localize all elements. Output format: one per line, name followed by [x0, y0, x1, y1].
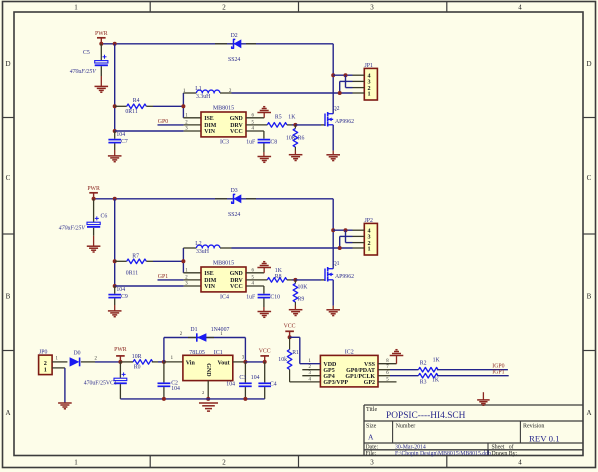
svg-text:B: B [6, 293, 11, 301]
svg-text:A: A [5, 409, 10, 417]
svg-text:3.3uH: 3.3uH [196, 94, 211, 100]
svg-text:470uF/25V: 470uF/25V [70, 68, 98, 75]
svg-text:AP9962: AP9962 [335, 274, 354, 280]
svg-text:A: A [586, 409, 591, 417]
svg-text:ISE: ISE [204, 116, 214, 122]
svg-text:10k: 10k [278, 357, 287, 363]
svg-text:GND: GND [230, 116, 243, 122]
svg-text:Q2: Q2 [333, 106, 340, 112]
svg-text:VCC: VCC [230, 284, 243, 290]
svg-text:VCC: VCC [230, 129, 243, 135]
svg-text:1uF: 1uF [246, 295, 256, 301]
svg-text:C9: C9 [121, 294, 128, 300]
svg-text:IGP1: IGP1 [492, 370, 504, 376]
svg-text:R4: R4 [133, 98, 140, 104]
svg-text:Size: Size [366, 424, 377, 430]
svg-text:D0: D0 [74, 351, 81, 357]
svg-text:R1: R1 [292, 350, 299, 356]
svg-text:C8: C8 [270, 140, 277, 146]
svg-text:DIM: DIM [204, 278, 217, 284]
svg-text:3: 3 [370, 4, 374, 12]
svg-text:VIN: VIN [204, 284, 216, 290]
svg-text:VCC: VCC [284, 323, 296, 329]
svg-text:10R: 10R [132, 354, 142, 360]
svg-text:REV 0.1: REV 0.1 [529, 434, 560, 444]
svg-text:104: 104 [116, 287, 125, 293]
svg-text:SS24: SS24 [228, 57, 240, 63]
svg-text:Date:: Date: [366, 444, 379, 450]
svg-text:33uH: 33uH [196, 249, 210, 255]
svg-text:4: 4 [518, 458, 522, 466]
svg-text:JP2: JP2 [365, 218, 373, 224]
svg-text:R3: R3 [420, 379, 427, 385]
svg-text:470uF/25VC1: 470uF/25VC1 [84, 381, 117, 387]
svg-text:DIM: DIM [204, 123, 217, 129]
svg-text:C3: C3 [239, 375, 246, 381]
svg-text:3: 3 [370, 458, 374, 466]
svg-text:Revision: Revision [523, 424, 544, 430]
svg-text:File:: File: [366, 451, 377, 457]
svg-text:SS24: SS24 [228, 212, 240, 218]
svg-text:1: 1 [74, 458, 78, 466]
svg-text:MB8015: MB8015 [213, 260, 234, 266]
svg-text:IGP0: IGP0 [492, 363, 504, 369]
svg-text:POPSIC----HI4.SCH: POPSIC----HI4.SCH [386, 411, 466, 421]
svg-text:2: 2 [202, 390, 204, 395]
svg-text:C7: C7 [121, 139, 128, 145]
svg-text:C: C [6, 174, 11, 182]
svg-text:104: 104 [251, 375, 260, 381]
svg-text:R8: R8 [275, 274, 282, 280]
svg-text:B: B [587, 293, 592, 301]
svg-text:30-Mar-2014: 30-Mar-2014 [395, 444, 426, 450]
svg-text:GND: GND [205, 363, 211, 377]
svg-text:104: 104 [226, 381, 235, 387]
svg-text:1: 1 [44, 366, 47, 373]
svg-text:1K: 1K [288, 114, 296, 120]
svg-text:104: 104 [116, 132, 125, 138]
svg-text:C6: C6 [101, 214, 108, 220]
svg-text:1K: 1K [433, 358, 441, 364]
svg-text:GP3/VPP: GP3/VPP [323, 380, 348, 386]
svg-text:L2: L2 [195, 241, 202, 247]
svg-text:Q1: Q1 [333, 261, 340, 267]
svg-text:IC3: IC3 [220, 140, 229, 146]
svg-text:GP2: GP2 [364, 380, 375, 386]
svg-text:D2: D2 [231, 33, 238, 39]
svg-text:2: 2 [222, 4, 226, 12]
svg-text:L1: L1 [195, 86, 202, 92]
svg-text:GP0: GP0 [158, 119, 168, 125]
svg-text:IC4: IC4 [220, 295, 229, 301]
svg-text:C5: C5 [83, 50, 90, 56]
svg-text:GP1/PCLK: GP1/PCLK [345, 374, 375, 380]
svg-text:JP0: JP0 [39, 349, 47, 355]
svg-text:Drawn By:: Drawn By: [492, 451, 518, 457]
svg-text:1uF: 1uF [246, 140, 256, 146]
svg-text:JP1: JP1 [365, 63, 373, 69]
svg-text:PWR: PWR [87, 186, 100, 192]
svg-text:PWR: PWR [114, 347, 127, 353]
svg-text:GP4: GP4 [323, 374, 334, 380]
svg-text:4: 4 [518, 4, 522, 12]
svg-text:R6: R6 [298, 135, 305, 141]
svg-text:Title: Title [366, 407, 377, 413]
svg-text:R0: R0 [134, 364, 141, 370]
svg-text:1K: 1K [432, 378, 440, 384]
svg-text:C: C [587, 174, 592, 182]
svg-text:D3: D3 [231, 188, 238, 194]
svg-text:104: 104 [171, 386, 180, 392]
svg-text:D: D [586, 60, 591, 68]
svg-text:GND: GND [230, 271, 243, 277]
svg-text:0R11: 0R11 [126, 270, 138, 276]
svg-text:Vout: Vout [217, 361, 229, 367]
svg-text:AP9962: AP9962 [335, 119, 354, 125]
svg-text:VCC: VCC [259, 349, 271, 355]
svg-text:IC2: IC2 [345, 350, 354, 356]
svg-text:R5: R5 [275, 114, 282, 120]
svg-text:470uF/25V: 470uF/25V [59, 224, 87, 231]
svg-text:GP1: GP1 [158, 274, 168, 280]
svg-text:DRV: DRV [230, 123, 243, 129]
svg-text:D1: D1 [190, 327, 197, 333]
svg-text:0R11: 0R11 [125, 109, 137, 115]
svg-text:DRV: DRV [230, 278, 243, 284]
svg-text:F:\Chopin Design\MB8015\MB8015: F:\Chopin Design\MB8015\MB8015.ddb [395, 451, 491, 457]
svg-text:A: A [368, 433, 374, 442]
svg-text:PWR: PWR [95, 31, 108, 37]
svg-text:78L05: 78L05 [189, 350, 205, 356]
svg-text:10K: 10K [298, 285, 309, 291]
svg-text:1: 1 [74, 4, 78, 12]
svg-text:D: D [5, 60, 10, 68]
svg-text:C10: C10 [270, 295, 280, 301]
svg-text:10K: 10K [286, 135, 297, 141]
svg-text:VIN: VIN [204, 129, 216, 135]
svg-text:Vin: Vin [186, 361, 196, 367]
svg-text:R2: R2 [420, 361, 427, 367]
svg-text:ISE: ISE [204, 271, 214, 277]
svg-text:MB8015: MB8015 [213, 105, 234, 111]
svg-text:1: 1 [367, 90, 370, 97]
svg-text:IC1: IC1 [214, 350, 223, 356]
svg-text:R9: R9 [298, 297, 305, 303]
svg-text:2: 2 [222, 458, 226, 466]
svg-text:1: 1 [367, 245, 370, 252]
svg-text:C4: C4 [270, 381, 277, 387]
svg-text:R7: R7 [132, 254, 139, 260]
svg-text:Number: Number [396, 424, 416, 430]
svg-text:Sheet of: Sheet of [492, 443, 514, 450]
